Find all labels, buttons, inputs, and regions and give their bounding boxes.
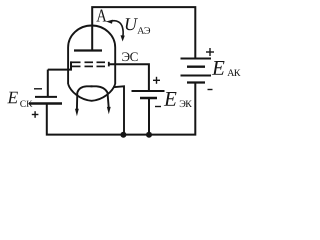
voltage arrow arc U_АЭ (112, 21, 124, 36)
label ЭС (122, 52, 137, 61)
wire grid lead (left, with stub into tube) (48, 61, 71, 69)
minus ЕАК (208, 89, 213, 91)
minus ЕСК (34, 88, 42, 90)
minus ЕЭК (155, 106, 161, 108)
arrowhead U arc left (106, 20, 113, 24)
label U_АЭ (126, 18, 138, 30)
wire ЕЭК − to bottom rail (148, 98, 150, 135)
label А anode (96, 10, 106, 22)
arrowhead beam left (75, 109, 79, 117)
plus ЕЭК (153, 79, 160, 81)
junction dot ЕЭК (146, 132, 152, 138)
junction dot cathode (120, 132, 126, 138)
electron trajectory left (77, 86, 93, 109)
grid dashes row2 (71, 65, 105, 67)
wire screen-grid ЭС lead to ЕЭК + (with stub) (108, 62, 110, 67)
label Е_ЭК (164, 92, 177, 106)
battery ЕАК plates (181, 58, 212, 60)
tube envelope bottom (68, 84, 115, 101)
wire bottom rail: ЕСК + to ЕАК − (47, 83, 196, 135)
wire anode lead, top rail and drop to ЕАК + (92, 7, 195, 58)
plus minus signs (32, 48, 214, 118)
grid dashes row1 (71, 61, 105, 63)
label Е_СК (7, 92, 18, 104)
plus ЕАК (206, 51, 214, 53)
electron trajectory right (91, 86, 109, 107)
battery ЕЭК plates (132, 90, 165, 92)
label Е_АК (212, 61, 225, 75)
plus ЕСК (32, 114, 39, 116)
wire grid branch down to ЕСК − (47, 70, 49, 97)
battery ЕСК plates (35, 96, 57, 98)
wire emitter/cathode lead to bottom rail (113, 86, 124, 134)
arrowhead U arc bottom (121, 35, 125, 41)
arrowhead beam right (107, 107, 111, 114)
tube envelope (68, 26, 115, 85)
anode plate А (74, 49, 102, 51)
